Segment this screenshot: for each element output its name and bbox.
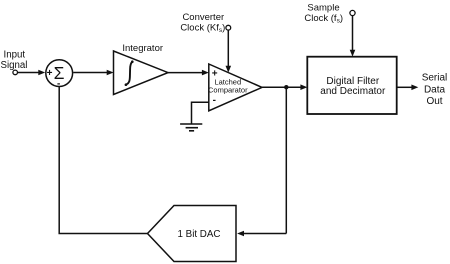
svg-text:Sample: Sample bbox=[307, 3, 339, 14]
svg-text:Out: Out bbox=[426, 96, 442, 107]
svg-text:1 Bit DAC: 1 Bit DAC bbox=[177, 229, 220, 240]
svg-text:Input: Input bbox=[4, 49, 26, 60]
svg-text:Comparator: Comparator bbox=[208, 86, 248, 95]
svg-text:and Decimator: and Decimator bbox=[320, 86, 386, 97]
svg-text:Serial: Serial bbox=[422, 73, 448, 84]
svg-text:Data: Data bbox=[424, 84, 446, 95]
svg-text:+: + bbox=[47, 68, 53, 79]
svg-text:Clock (Kfs): Clock (Kfs) bbox=[180, 22, 225, 34]
svg-text:Integrator: Integrator bbox=[122, 43, 163, 54]
svg-text:-: - bbox=[213, 95, 216, 106]
svg-text:-: - bbox=[57, 78, 60, 89]
svg-text:Clock (fs): Clock (fs) bbox=[304, 13, 343, 25]
svg-text:Signal: Signal bbox=[1, 60, 28, 71]
